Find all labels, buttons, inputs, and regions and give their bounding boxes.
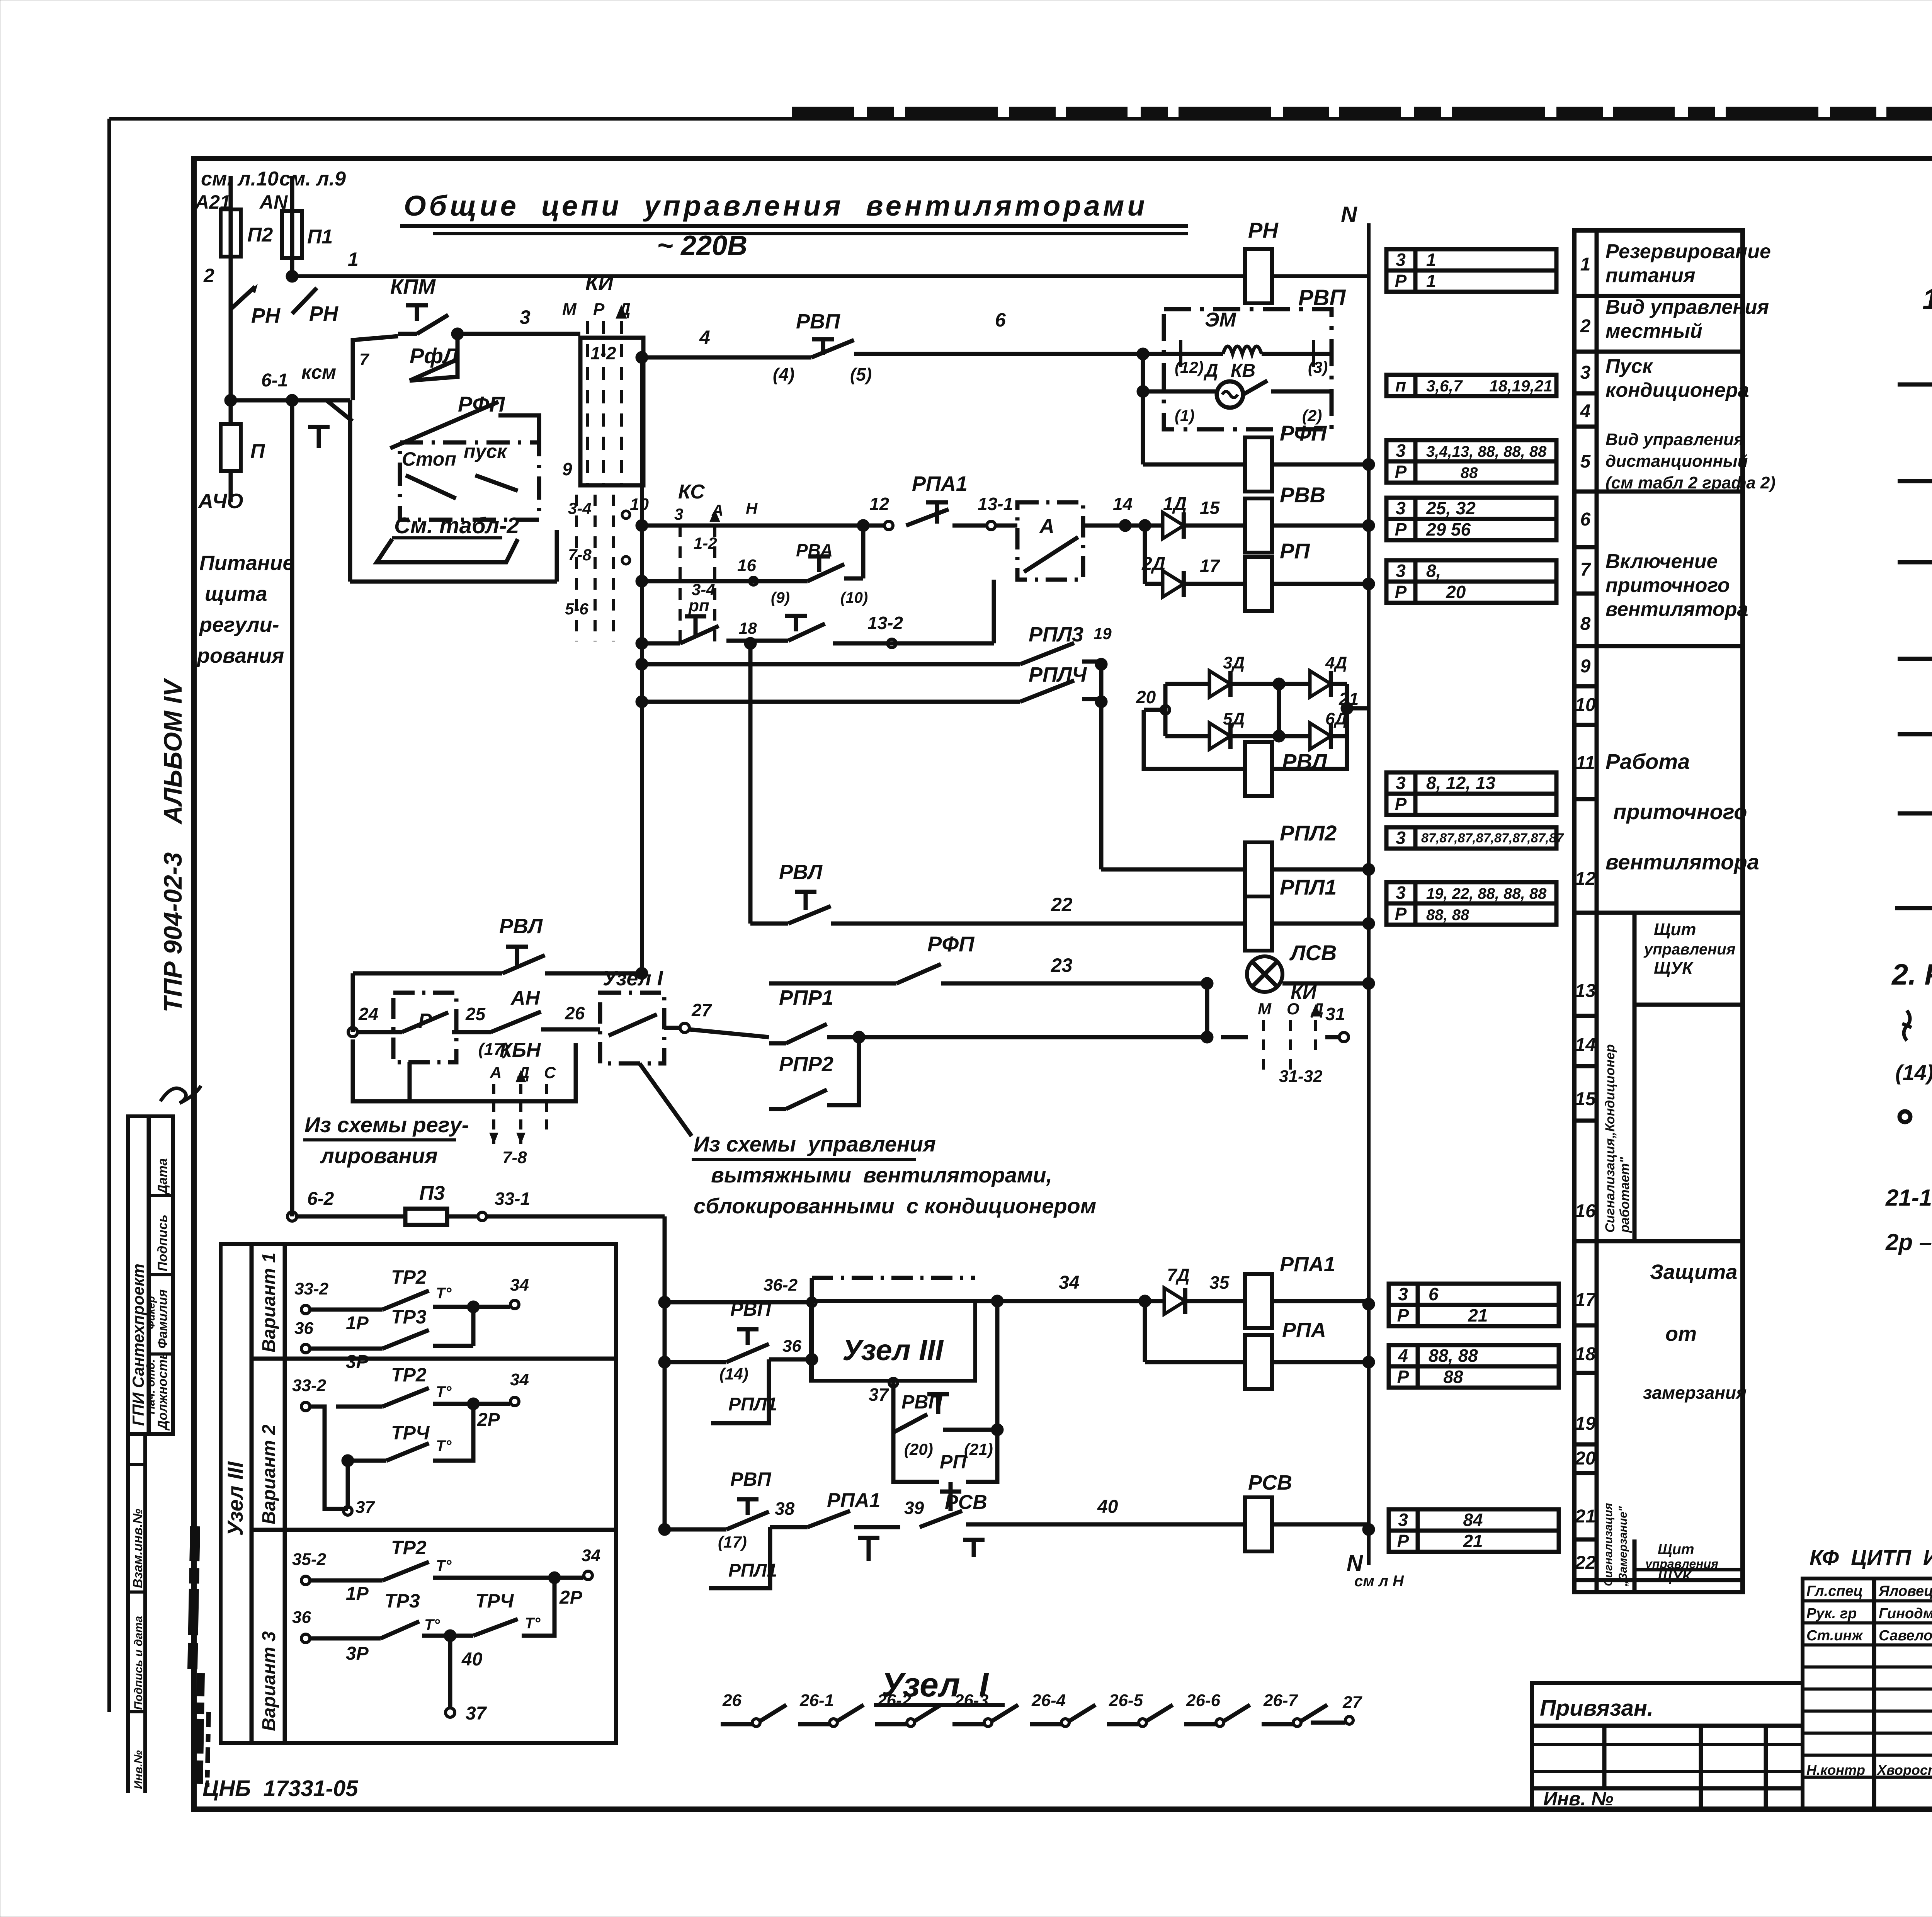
svg-text:(14): (14) — [1895, 1060, 1932, 1085]
svg-text:М: М — [562, 300, 577, 319]
svg-text:Общие цепи управления венти: Общие цепи управления вентиляторами — [404, 190, 1148, 222]
svg-text:5Д: 5Д — [1223, 709, 1245, 728]
svg-text:6-1: 6-1 — [261, 370, 288, 391]
left strip lower cells — [126, 1434, 130, 1793]
svg-text:Защита: Защита — [1650, 1260, 1737, 1284]
svg-text:М: М — [1258, 1000, 1272, 1018]
svg-text:3: 3 — [1580, 362, 1591, 383]
svg-text:22: 22 — [1051, 894, 1073, 915]
relay coil RPL1 — [1245, 896, 1272, 951]
svg-text:15: 15 — [1575, 1089, 1596, 1109]
privyazan table — [1532, 1683, 1803, 1809]
svg-text:РПР1: РПР1 — [779, 986, 833, 1009]
svg-text:1: 1 — [1426, 271, 1436, 291]
svg-text:88: 88 — [1429, 1367, 1463, 1387]
subcolumn 21-22 — [1634, 1539, 1635, 1580]
relay contact RN changeover — [231, 287, 255, 309]
svg-text:Узел III: Узел III — [842, 1334, 944, 1367]
svg-text:п: п — [1395, 375, 1406, 395]
signature scribble top — [160, 1086, 201, 1103]
svg-text:1Р: 1Р — [346, 1584, 369, 1604]
svg-text:Пуск: Пуск — [1605, 355, 1653, 378]
Uzel I dash-dot box — [600, 993, 664, 1063]
svg-text:(3): (3) — [1308, 358, 1328, 376]
svg-text:6: 6 — [1580, 509, 1591, 530]
svg-text:Вариант 2: Вариант 2 — [259, 1424, 279, 1524]
svg-text:3-4: 3-4 — [568, 499, 592, 517]
svg-text:Яловецкий: Яловецкий — [1878, 1583, 1932, 1599]
outer page border left — [107, 119, 111, 1712]
svg-text:Инв. №: Инв. № — [1543, 1788, 1613, 1810]
svg-text:3: 3 — [1396, 773, 1406, 793]
svg-text:РПЛ3: РПЛ3 — [1029, 623, 1083, 646]
svg-text:26-3: 26-3 — [954, 1691, 988, 1710]
block lower wire — [1143, 390, 1217, 394]
svg-text:См. табл-2: См. табл-2 — [394, 513, 519, 538]
svg-text:(17): (17) — [718, 1533, 747, 1551]
svg-text:26-6: 26-6 — [1186, 1691, 1221, 1710]
svg-text:4: 4 — [699, 327, 710, 348]
wire row 16 RVA — [636, 575, 648, 587]
svg-text:ТР2: ТР2 — [391, 1364, 427, 1386]
svg-text:РСВ: РСВ — [945, 1491, 987, 1514]
svg-text:19, 22, 88, 88, 88: 19, 22, 88, 88, 88 — [1426, 885, 1547, 902]
svg-text:7Д: 7Д — [1167, 1265, 1190, 1285]
svg-text:3Р: 3Р — [346, 1643, 369, 1664]
svg-text:РН: РН — [251, 304, 281, 327]
svg-text:33-2: 33-2 — [292, 1376, 327, 1395]
svg-text:Т°: Т° — [525, 1615, 541, 1632]
klemma box vid upr — [1386, 440, 1556, 483]
svg-text:КПМ: КПМ — [390, 275, 436, 298]
svg-text:Т°: Т° — [424, 1616, 440, 1633]
svg-text:Н: Н — [746, 499, 758, 517]
svg-text:37: 37 — [869, 1385, 889, 1405]
svg-text:15: 15 — [1200, 498, 1220, 518]
svg-text:рования: рования — [196, 644, 284, 667]
svg-text:26: 26 — [565, 1003, 585, 1023]
feeder vertical right — [663, 1216, 667, 1529]
svg-text:7: 7 — [359, 350, 370, 369]
svg-text:27: 27 — [691, 1000, 713, 1020]
svg-text:РП: РП — [940, 1451, 967, 1473]
svg-text:РВЛ: РВЛ — [499, 915, 543, 938]
legend item TP2 — [1898, 383, 1932, 387]
svg-text:(см табл 2 графа 2): (см табл 2 графа 2) — [1605, 473, 1776, 492]
bus wire 1 — [292, 274, 1245, 278]
svg-text:34: 34 — [510, 1276, 529, 1294]
svg-text:(5): (5) — [850, 364, 872, 384]
svg-text:9: 9 — [1580, 656, 1591, 677]
svg-text:14: 14 — [1575, 1035, 1595, 1055]
svg-text:пуск: пуск — [464, 441, 508, 462]
svg-text:ТР3: ТР3 — [391, 1306, 427, 1328]
svg-text:местный: местный — [1605, 320, 1702, 342]
svg-text:17: 17 — [1200, 556, 1221, 576]
svg-text:Гл.спец: Гл.спец — [1806, 1583, 1863, 1599]
svg-text:РВП: РВП — [796, 310, 840, 333]
svg-text:3,4,13, 88, 88, 88: 3,4,13, 88, 88, 88 — [1426, 443, 1547, 460]
legend item A — [1895, 906, 1932, 910]
svg-text:9: 9 — [562, 459, 572, 479]
svg-text:вытяжными вентиляторами,: вытяжными вентиляторами, — [711, 1163, 1052, 1187]
svg-text:Дата: Дата — [155, 1158, 170, 1195]
svg-text:сблокированными с кондиционер: сблокированными с кондиционером — [694, 1194, 1096, 1218]
svg-text:КВ: КВ — [1231, 361, 1255, 381]
svg-text:36: 36 — [294, 1319, 313, 1338]
svg-text:3Д: 3Д — [1223, 653, 1245, 672]
Uzel III dash-dot entry — [812, 1276, 975, 1280]
svg-text:ТР2: ТР2 — [391, 1266, 427, 1288]
svg-text:21: 21 — [1429, 1531, 1483, 1551]
klemma box 8-12-13 — [1386, 772, 1556, 815]
klemma box pusk — [1386, 375, 1556, 396]
klemma box 88-88 — [1389, 1345, 1559, 1388]
svg-text:Резервирование: Резервирование — [1605, 240, 1771, 263]
svg-text:РПА: РПА — [1282, 1318, 1326, 1342]
svg-text:Сигнализация: Сигнализация — [1602, 1503, 1615, 1586]
box around KBN — [353, 1039, 576, 1101]
svg-text:Д: Д — [1203, 361, 1218, 381]
svg-text:КС: КС — [678, 481, 705, 503]
svg-text:88: 88 — [1426, 464, 1478, 481]
svg-text:14: 14 — [1113, 494, 1133, 514]
svg-text:11: 11 — [1576, 753, 1595, 773]
svg-text:вентилятора: вентилятора — [1605, 598, 1748, 621]
svg-text:Т°: Т° — [436, 1285, 452, 1302]
relay coil RPL2 — [1101, 867, 1245, 872]
diode 6D — [1279, 734, 1310, 738]
svg-text:Из схемы регу-: Из схемы регу- — [304, 1112, 469, 1137]
svg-text:А: А — [1039, 515, 1054, 538]
svg-text:П: П — [250, 440, 265, 463]
svg-text:(20): (20) — [904, 1440, 933, 1458]
klemma box 84-21 — [1389, 1509, 1559, 1552]
klemma box 8-20 — [1386, 560, 1556, 603]
legend item TP3 — [1898, 479, 1932, 483]
svg-text:25, 32: 25, 32 — [1426, 498, 1476, 518]
variants box frame — [221, 1244, 616, 1743]
svg-text:Подпись: Подпись — [155, 1214, 170, 1271]
svg-text:РВП: РВП — [1298, 285, 1346, 310]
svg-text:13: 13 — [1575, 981, 1596, 1001]
legend item d — [1898, 811, 1932, 816]
node 27 — [664, 1026, 680, 1030]
klemma box 6-21 — [1389, 1284, 1559, 1326]
svg-text:Узел III: Узел III — [223, 1461, 247, 1536]
svg-text:1. Положение работы контакто: 1. Положение работы контактов — [1922, 283, 1932, 316]
relay coil RN — [1245, 249, 1272, 303]
scan smudge left margin — [192, 1526, 195, 1669]
svg-text:приточного: приточного — [1613, 799, 1747, 824]
svg-text:16: 16 — [737, 556, 756, 575]
svg-text:3: 3 — [1396, 441, 1406, 461]
svg-text:А: А — [490, 1063, 502, 1082]
svg-text:3: 3 — [1396, 561, 1406, 581]
variant3 stub 40-37 — [448, 1636, 452, 1708]
svg-text:13-1: 13-1 — [978, 494, 1013, 514]
fuse P1 — [282, 211, 302, 258]
svg-text:вентилятора: вентилятора — [1605, 850, 1759, 874]
left vertical bus to 6-2 — [290, 400, 294, 1216]
svg-text:Подпись и дата: Подпись и дата — [132, 1616, 145, 1710]
svg-text:26-4: 26-4 — [1031, 1691, 1066, 1710]
relay coil RVL — [1245, 742, 1272, 796]
svg-text:26-1: 26-1 — [799, 1691, 834, 1710]
svg-text:РВВ: РВВ — [1280, 483, 1325, 507]
svg-text:дистанционный: дистанционный — [1605, 452, 1748, 471]
svg-text:Взам.инв.№: Взам.инв.№ — [131, 1509, 145, 1588]
relay coil RPA — [1245, 1335, 1272, 1389]
outer border top dark dashed band — [792, 107, 1932, 118]
svg-text:Гинодман: Гинодман — [1879, 1606, 1932, 1622]
svg-text:31: 31 — [1325, 1004, 1345, 1024]
block left vertical — [1141, 354, 1145, 464]
svg-text:31-32: 31-32 — [1279, 1067, 1323, 1086]
svg-text:84: 84 — [1429, 1510, 1483, 1530]
svg-text:4: 4 — [1580, 401, 1591, 422]
svg-text:Р: Р — [1397, 1367, 1409, 1387]
svg-text:38: 38 — [775, 1499, 795, 1519]
diode 5D — [1165, 734, 1209, 738]
svg-text:2Р: 2Р — [559, 1587, 583, 1608]
svg-text:(14): (14) — [719, 1365, 748, 1383]
svg-text:П1: П1 — [307, 226, 333, 248]
svg-text:2. Расшифровка условного о: 2. Расшифровка условного обозначения — [1891, 958, 1932, 991]
svg-text:ЭМ: ЭМ — [1205, 309, 1236, 331]
svg-text:26: 26 — [722, 1691, 742, 1710]
svg-text:36-2: 36-2 — [764, 1276, 798, 1294]
variant2 rows — [301, 1402, 310, 1411]
svg-text:см. л.10: см. л.10 — [201, 168, 279, 190]
sub circuit RVP RP below uzel3 — [891, 1383, 896, 1432]
svg-text:34: 34 — [1059, 1272, 1079, 1293]
svg-text:34: 34 — [582, 1546, 600, 1565]
svg-text:2Р: 2Р — [477, 1410, 500, 1430]
svg-text:РСВ: РСВ — [1248, 1471, 1292, 1494]
fuse P lower — [229, 400, 233, 424]
svg-text:N: N — [1341, 202, 1357, 227]
svg-text:88, 88: 88, 88 — [1426, 907, 1469, 924]
klemma box 87s — [1386, 827, 1556, 849]
svg-text:35: 35 — [1209, 1272, 1230, 1293]
svg-text:ТПР 904-02-3 АЛЬБОМ IV: ТПР 904-02-3 АЛЬБОМ IV — [158, 678, 187, 1012]
svg-text:рп: рп — [688, 596, 709, 615]
svg-text:26-7: 26-7 — [1263, 1691, 1299, 1710]
svg-text:1: 1 — [348, 248, 359, 270]
svg-text:РПР2: РПР2 — [779, 1053, 833, 1076]
wire 34 row — [991, 1295, 1003, 1307]
svg-text:4: 4 — [1398, 1345, 1408, 1366]
svg-text:1Р: 1Р — [346, 1313, 369, 1334]
wire RVL upper contact — [353, 971, 502, 976]
svg-text:87,87,87,87,87,87,87,87: 87,87,87,87,87,87,87,87 — [1421, 831, 1565, 845]
svg-text:3: 3 — [520, 306, 531, 328]
svg-text:27: 27 — [1342, 1693, 1362, 1712]
svg-text:20: 20 — [1575, 1448, 1596, 1469]
relay coil RP — [1245, 557, 1272, 611]
svg-text:Вариант 3: Вариант 3 — [259, 1631, 279, 1731]
svg-text:2: 2 — [1580, 316, 1591, 337]
svg-text:„Замерзание": „Замерзание" — [1617, 1506, 1629, 1587]
svg-text:33-1: 33-1 — [495, 1189, 530, 1209]
svg-text:от: от — [1665, 1322, 1697, 1345]
contact RPL3 row — [636, 658, 648, 670]
svg-text:КБН: КБН — [500, 1039, 541, 1061]
legend item TP4 — [1898, 560, 1932, 565]
subcolumn 13-16 — [1633, 913, 1637, 1241]
wire fuse P2 drop — [229, 176, 233, 400]
node 24 — [348, 1027, 357, 1037]
svg-text:26-2: 26-2 — [877, 1691, 912, 1710]
svg-text:29 56: 29 56 — [1426, 519, 1471, 539]
svg-text:С: С — [544, 1063, 556, 1082]
node 6-2 — [287, 1212, 297, 1221]
svg-text:18: 18 — [739, 619, 757, 637]
wire row 31 — [827, 1035, 1207, 1039]
A box emergency — [1017, 502, 1083, 580]
svg-text:РПЛЧ: РПЛЧ — [1029, 663, 1087, 686]
svg-text:РФП: РФП — [927, 932, 975, 956]
RPA row — [1143, 1301, 1147, 1362]
svg-text:см. л.9: см. л.9 — [279, 168, 346, 190]
svg-text:приточного: приточного — [1605, 574, 1730, 597]
svg-text:3: 3 — [1396, 883, 1406, 903]
svg-text:5: 5 — [1580, 451, 1591, 472]
svg-text:Рук. гр: Рук. гр — [1806, 1606, 1857, 1622]
svg-text:Р: Р — [1397, 1531, 1409, 1551]
contact KSM — [327, 400, 352, 421]
svg-text:работает": работает" — [1617, 1157, 1632, 1233]
svg-text:1: 1 — [1580, 254, 1591, 275]
svg-text:Р: Р — [1395, 462, 1407, 482]
legend item G — [1898, 732, 1932, 737]
svg-text:12: 12 — [869, 494, 889, 514]
fuse P3 — [297, 1214, 405, 1219]
svg-text:3,6,7 18,19,21: 3,6,7 18,19,21 — [1426, 377, 1553, 395]
svg-text:РПЛ1: РПЛ1 — [1280, 875, 1337, 899]
svg-text:4Д: 4Д — [1325, 653, 1347, 672]
svg-text:лирования: лирования — [320, 1143, 438, 1168]
svg-text:АЧО: АЧО — [197, 490, 243, 513]
klemma box 25-32 — [1386, 498, 1556, 540]
svg-text:6: 6 — [1429, 1284, 1439, 1304]
svg-text:О: О — [1287, 1000, 1299, 1018]
svg-text:Фамилия: Фамилия — [155, 1289, 170, 1349]
relay coil RVV — [1245, 498, 1272, 553]
svg-text:22: 22 — [1575, 1553, 1596, 1573]
klemma box row1 — [1386, 249, 1556, 292]
svg-text:Хворосткова: Хворосткова — [1876, 1762, 1932, 1778]
left stamp block GPI Santehproekt — [128, 1116, 173, 1434]
svg-text:3Р: 3Р — [346, 1352, 369, 1372]
svg-text:37: 37 — [466, 1703, 487, 1724]
svg-text:3: 3 — [1396, 498, 1406, 518]
svg-text:регули-: регули- — [199, 613, 279, 636]
svg-text:ТРЧ: ТРЧ — [475, 1590, 514, 1612]
svg-text:3: 3 — [674, 505, 683, 523]
svg-text:Р: Р — [1395, 794, 1407, 814]
svg-text:36: 36 — [292, 1608, 311, 1627]
svg-text:Щит: Щит — [1654, 920, 1696, 939]
N bus vertical — [1367, 223, 1371, 1565]
variant1 row TP2 — [301, 1305, 310, 1314]
svg-text:Включение: Включение — [1605, 550, 1718, 573]
svg-text:Фикер: Фикер — [145, 1296, 157, 1329]
svg-text:Р: Р — [593, 300, 605, 319]
svg-text:20: 20 — [1136, 687, 1156, 707]
svg-text:3: 3 — [1398, 1284, 1408, 1304]
svg-text:(9): (9) — [771, 589, 790, 606]
svg-text:20: 20 — [1426, 582, 1466, 602]
svg-text:ЦНБ 17331-05: ЦНБ 17331-05 — [202, 1776, 358, 1801]
svg-text:ТРЧ: ТРЧ — [391, 1422, 430, 1444]
svg-text:7: 7 — [1580, 560, 1592, 580]
svg-text:88, 88: 88, 88 — [1429, 1345, 1478, 1366]
svg-text:РПЛ2: РПЛ2 — [1280, 821, 1337, 845]
relay RVP dash-dot block — [1164, 309, 1332, 429]
node 38 — [770, 1525, 808, 1529]
svg-text:18: 18 — [1575, 1344, 1596, 1364]
svg-text:33-2: 33-2 — [294, 1279, 329, 1298]
node 37 — [869, 1380, 885, 1381]
svg-text:12: 12 — [1575, 869, 1596, 889]
svg-text:Савелова: Савелова — [1879, 1628, 1932, 1644]
svg-text:П3: П3 — [419, 1182, 445, 1204]
svg-text:17: 17 — [1575, 1290, 1597, 1310]
svg-text:7-8: 7-8 — [568, 546, 592, 564]
svg-text:21: 21 — [1429, 1305, 1488, 1325]
svg-text:35-2: 35-2 — [292, 1550, 327, 1569]
svg-text:питания: питания — [1605, 264, 1695, 287]
svg-text:3: 3 — [1398, 1510, 1408, 1530]
svg-text:РВП: РВП — [730, 1468, 771, 1490]
svg-text:КИ: КИ — [585, 271, 614, 294]
svg-text:замерзания: замерзания — [1643, 1383, 1747, 1403]
svg-text:10: 10 — [1575, 695, 1596, 715]
signature table — [1803, 1579, 1932, 1809]
svg-text:Ст.инж: Ст.инж — [1806, 1628, 1863, 1644]
svg-text:1Д: 1Д — [1163, 494, 1187, 514]
svg-text:щита: щита — [205, 582, 267, 606]
svg-text:36: 36 — [782, 1337, 801, 1356]
svg-text:Р: Р — [1395, 904, 1407, 924]
svg-text:РП: РП — [1280, 539, 1310, 563]
svg-text:Р: Р — [1395, 582, 1407, 602]
svg-text:Т°: Т° — [436, 1437, 452, 1454]
svg-text:Вид управления: Вид управления — [1605, 296, 1769, 318]
relay box RfL self-hold — [353, 336, 398, 400]
pointer to text iz shemy upravleniya — [639, 1063, 692, 1136]
svg-text:П2: П2 — [247, 224, 273, 246]
R box dash-dot — [393, 993, 456, 1062]
vertical bus x1661 — [640, 357, 644, 973]
wire fuse P1 drop — [290, 176, 294, 276]
contact R — [402, 1012, 448, 1032]
svg-text:Работа: Работа — [1605, 749, 1690, 774]
svg-text:1-2: 1-2 — [694, 534, 717, 552]
svg-text:6-2: 6-2 — [307, 1189, 334, 1209]
feeder branches — [658, 1296, 671, 1308]
svg-text:ЛСВ: ЛСВ — [1289, 941, 1337, 965]
svg-text:(12): (12) — [1175, 358, 1204, 376]
svg-text:кондиционера: кондиционера — [1605, 379, 1749, 401]
svg-text:Инв.№: Инв.№ — [132, 1750, 145, 1789]
contact RPL4 row — [636, 696, 648, 708]
function table frame — [1574, 230, 1743, 1592]
svg-text:39: 39 — [904, 1498, 924, 1518]
svg-text:ЩУК: ЩУК — [1654, 959, 1694, 978]
